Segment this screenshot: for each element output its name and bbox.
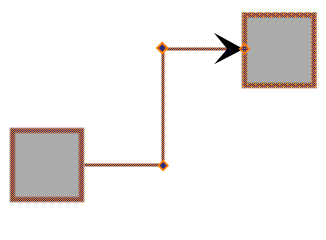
node B (top bend handle: orange diamond with navy core): [156, 42, 169, 55]
wire segment W2 (vertical, from bend node A up to bend node B): [162, 48, 165, 167]
box B2 edge anti-alias fringe: [242, 13, 317, 89]
box B2 (right rectangle, selected: checkered border): [242, 12, 318, 89]
node C (connection point on box B2 left edge: orange diamond, checkered core): [239, 43, 251, 55]
box B1 (left rectangle, selected: checkered border): [10, 128, 85, 203]
box B1 edge anti-alias fringe: [10, 128, 84, 202]
arrowhead (black concave arrow pointing into box B2): [214, 33, 244, 65]
wire segment W1 (horizontal, from box B1 right edge to bend node A): [85, 164, 165, 167]
wire segment W3 (horizontal, from bend node B to arrowhead at box B2): [162, 48, 244, 51]
node A (bottom bend handle: orange diamond with navy core): [157, 160, 169, 172]
